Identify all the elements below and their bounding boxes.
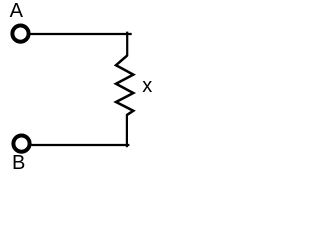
terminal A	[12, 25, 28, 41]
resistor x	[116, 56, 133, 116]
terminal B	[13, 136, 29, 152]
wire bottom	[31, 144, 129, 146]
wire bottom-right lead	[126, 115, 128, 148]
svg-text:A: A	[10, 0, 24, 22]
wire top	[30, 33, 132, 35]
wire top-right lead	[126, 32, 128, 57]
svg-text:B: B	[12, 152, 25, 174]
svg-text:x: x	[142, 75, 152, 97]
